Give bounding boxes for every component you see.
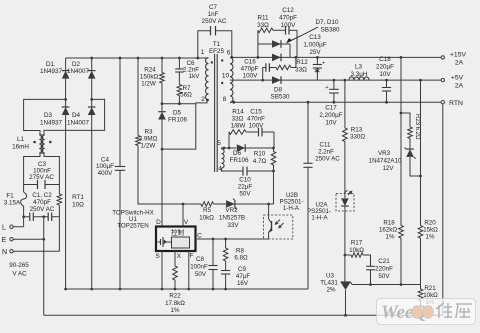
svg-text:EF25: EF25 (209, 48, 225, 55)
svg-text:90-265: 90-265 (9, 262, 29, 269)
svg-text:470pF: 470pF (241, 66, 259, 73)
svg-text:470pF: 470pF (279, 15, 297, 22)
wire V-pin row (183, 203, 201, 205)
svg-text:C17: C17 (325, 105, 337, 112)
wire pin10 / +5V rail (230, 79, 441, 81)
resistor R22 on X pin (174, 251, 176, 266)
snubber capacitor C12 (273, 29, 286, 31)
IC U1 TOP257EN box (156, 227, 196, 252)
resistor R24 (161, 58, 163, 73)
resistor R5 (201, 202, 214, 207)
svg-text:1N5257B: 1N5257B (219, 215, 245, 222)
svg-text:1/8W: 1/8W (231, 123, 246, 130)
svg-text:D6: D6 (233, 150, 242, 157)
svg-text:2,200µF: 2,200µF (319, 112, 342, 119)
resistor R18 column (400, 57, 402, 225)
svg-text:∗: ∗ (313, 66, 321, 76)
diode D8 (272, 76, 281, 84)
svg-text:U3: U3 (326, 273, 334, 280)
svg-text:F: F (190, 253, 194, 260)
wire S pin (161, 251, 163, 289)
svg-text:D5: D5 (173, 110, 182, 117)
svg-text:C16: C16 (244, 59, 256, 66)
svg-text:1kV: 1kV (189, 73, 201, 80)
svg-text:470pF: 470pF (33, 199, 51, 206)
svg-text:1N4742A10: 1N4742A10 (369, 158, 402, 165)
svg-text:C10: C10 (239, 177, 251, 184)
svg-text:S: S (155, 253, 160, 260)
terminal RTN (441, 101, 444, 104)
svg-text:F1: F1 (6, 193, 14, 200)
svg-text:C13: C13 (309, 34, 321, 41)
svg-text:10V: 10V (325, 120, 337, 127)
svg-text:4.7Ω: 4.7Ω (253, 158, 267, 165)
svg-text:220nF: 220nF (375, 266, 393, 273)
U1 MOSFET symbol (160, 239, 162, 245)
svg-text:VR3: VR3 (378, 150, 391, 157)
svg-text:RT1: RT1 (72, 194, 84, 201)
svg-text:250V AC: 250V AC (202, 18, 227, 25)
svg-text:R18: R18 (383, 220, 395, 227)
resistor R20 column (420, 80, 422, 225)
wire choke bottom-right to C3 row (44, 153, 59, 194)
svg-text:C11: C11 (320, 142, 331, 149)
capacitor C3 (24, 184, 38, 186)
terminal +15V (441, 56, 444, 59)
svg-text:C21: C21 (378, 258, 390, 265)
svg-text:SB530: SB530 (271, 94, 290, 101)
svg-text:R13: R13 (351, 127, 363, 134)
zener VR3 (409, 139, 411, 150)
capacitor C17 (333, 80, 335, 89)
svg-text:50V: 50V (378, 273, 390, 280)
svg-text:1N4937: 1N4937 (40, 68, 63, 75)
svg-text:C9: C9 (238, 266, 246, 273)
wire V pin (182, 204, 184, 227)
svg-text:L3: L3 (355, 64, 363, 71)
svg-text:220µF: 220µF (376, 64, 394, 71)
svg-text:22µF: 22µF (238, 184, 253, 191)
diode D3 (65, 99, 67, 107)
snubber capacitor C15 (246, 131, 259, 133)
capacitor C4 (119, 58, 121, 167)
terminal N (10, 250, 13, 253)
shunt regulator U3 TL431 (341, 281, 351, 283)
svg-text:D4: D4 (72, 112, 81, 119)
capacitor C9 (221, 270, 230, 272)
svg-text:2.2nF: 2.2nF (318, 149, 334, 156)
svg-text:+15V: +15V (450, 52, 467, 59)
capacitor C8 (212, 239, 214, 266)
wire choke bottom-left to C3 row (24, 153, 40, 192)
svg-text:100V: 100V (249, 123, 265, 130)
transformer T1 core (214, 54, 216, 172)
wire RTN rail pin8 (230, 101, 441, 103)
svg-text:C15: C15 (250, 109, 262, 116)
svg-text:C1, C2: C1, C2 (32, 192, 52, 199)
snubber resistor R12 (276, 65, 291, 70)
zener VR2 (226, 200, 235, 208)
wire T1 pin2 to drain column (162, 100, 207, 149)
svg-text:3.9MΩ: 3.9MΩ (139, 136, 158, 143)
optocoupler U2A LED (336, 194, 354, 212)
wire F pin (188, 251, 190, 289)
svg-text:15kΩ: 15kΩ (423, 227, 438, 234)
svg-text:R14: R14 (232, 109, 244, 116)
capacitor C1 (24, 216, 30, 218)
svg-text:10kΩ: 10kΩ (423, 292, 438, 299)
svg-text:25V: 25V (309, 49, 321, 56)
svg-text:470nF: 470nF (247, 116, 265, 123)
svg-text:1%: 1% (171, 307, 180, 314)
svg-text:L: L (2, 225, 6, 232)
svg-text:SB380: SB380 (321, 27, 340, 34)
capacitor C18 (386, 80, 388, 87)
svg-text:R11: R11 (257, 15, 269, 22)
svg-text:8: 8 (223, 96, 227, 103)
svg-text:1-H-A: 1-H-A (283, 205, 300, 212)
optocoupler U2B transistor (268, 204, 270, 215)
svg-text:R8: R8 (236, 248, 244, 255)
watermark box (377, 299, 476, 325)
svg-text:1-H-A: 1-H-A (311, 215, 328, 222)
svg-text:1N4007: 1N4007 (67, 120, 90, 127)
terminal E (10, 238, 13, 241)
inductor L3 (349, 77, 369, 80)
wire primary source rail (66, 288, 308, 290)
svg-text:D3: D3 (44, 112, 53, 119)
svg-text:1,000µF: 1,000µF (303, 42, 326, 49)
svg-text:R22: R22 (169, 293, 181, 300)
svg-text:V AC: V AC (12, 271, 27, 278)
svg-text:C: C (197, 233, 202, 240)
svg-text:250V AC: 250V AC (30, 206, 55, 213)
resistor R3 (137, 58, 139, 136)
svg-text:R10: R10 (254, 151, 266, 158)
wire clamp node row (162, 103, 196, 105)
diode D7 parallel branch (257, 44, 259, 57)
snubber R11 (257, 30, 259, 44)
svg-text:47µF: 47µF (236, 273, 250, 280)
inductor L1 common-mode choke (39, 135, 42, 153)
wire F1 to L (23, 206, 25, 227)
svg-text:33Ω: 33Ω (257, 22, 269, 29)
wire bias VB to zener row (273, 171, 275, 204)
svg-text:275V AC: 275V AC (29, 174, 54, 181)
svg-text:10kΩ: 10kΩ (199, 215, 214, 222)
resistor R21 (420, 285, 422, 290)
svg-text:16mH: 16mH (12, 144, 29, 151)
svg-text:R12: R12 (296, 59, 308, 66)
terminal +5V (441, 78, 444, 81)
svg-text:100V: 100V (281, 22, 297, 29)
svg-text:2A: 2A (455, 83, 464, 90)
diode D6 (222, 148, 225, 149)
wire secondary return bottom rail (44, 314, 443, 316)
svg-text:X: X (177, 253, 182, 260)
svg-text:R21: R21 (424, 285, 436, 292)
svg-text:R5: R5 (203, 207, 212, 214)
svg-text:D2: D2 (72, 61, 81, 68)
resistor R17 (345, 254, 351, 256)
resistor R13 (344, 80, 346, 128)
svg-text:TOP257EN: TOP257EN (117, 223, 149, 230)
svg-text:+: + (322, 61, 325, 67)
svg-text:100nF: 100nF (190, 264, 208, 271)
diode D2 (91, 58, 93, 71)
svg-text:D8: D8 (274, 87, 283, 94)
capacitor C11 Y-cap (307, 167, 309, 289)
wire C pin row (196, 238, 269, 240)
svg-text:10kΩ: 10kΩ (349, 247, 364, 254)
svg-text:330Ω: 330Ω (350, 134, 366, 141)
svg-text:33V: 33V (227, 222, 239, 229)
svg-text:1: 1 (201, 49, 205, 56)
svg-text:1/2W: 1/2W (141, 143, 156, 150)
svg-text:50V: 50V (195, 271, 207, 278)
svg-text:33Ω: 33Ω (232, 116, 244, 123)
wire pin6 / +15V rail (230, 56, 441, 58)
diode D4 (91, 99, 93, 107)
transformer T1 secondary winding (230, 57, 233, 102)
svg-text:FR106: FR106 (168, 117, 187, 124)
svg-text:1%: 1% (386, 234, 395, 241)
svg-text:56Ω: 56Ω (180, 92, 192, 99)
svg-text:R24: R24 (144, 67, 156, 74)
svg-text:C12: C12 (282, 7, 294, 14)
svg-text:162kΩ: 162kΩ (379, 227, 397, 234)
transformer T1 bias winding (222, 149, 225, 168)
svg-text:C8: C8 (196, 256, 204, 263)
svg-text:1/2W: 1/2W (141, 81, 156, 88)
resistor R8 (225, 239, 227, 248)
svg-text:100µF: 100µF (96, 163, 114, 170)
svg-text:D7, D10: D7, D10 (315, 19, 339, 26)
svg-text:+: + (325, 85, 328, 91)
svg-text:R3: R3 (144, 129, 153, 136)
capacitor C13 (316, 57, 318, 64)
resistor R10 (271, 152, 276, 166)
svg-text:3.15A: 3.15A (4, 200, 21, 207)
svg-text:5: 5 (217, 140, 221, 147)
snubber R14 (228, 132, 230, 148)
fuse F1 (21, 192, 27, 206)
wire primary HV+ top rail (66, 57, 209, 59)
resistor R23 (401, 113, 410, 127)
svg-text:10Ω: 10Ω (72, 202, 84, 209)
svg-text:RTN: RTN (449, 100, 463, 107)
resistor R7 (177, 85, 182, 96)
svg-text:2%: 2% (327, 287, 336, 294)
svg-text:250V AC: 250V AC (315, 156, 340, 163)
wire LED to TL431 (344, 207, 346, 283)
svg-text:R20: R20 (424, 220, 436, 227)
svg-text:16V: 16V (237, 280, 249, 287)
svg-text:FR106: FR106 (230, 157, 249, 164)
capacitor C7 Y-cap (198, 31, 211, 57)
svg-text:+5V: +5V (451, 75, 464, 82)
capacitor C10 (222, 168, 244, 171)
svg-text:R23 6.2Ω: R23 6.2Ω (414, 114, 420, 140)
svg-text:400V: 400V (98, 170, 114, 177)
diode D1 (65, 58, 67, 71)
snubber capacitor C16 (263, 68, 266, 81)
capacitor C21 (366, 265, 375, 267)
svg-text:C18: C18 (379, 56, 391, 63)
wire AC1 to choke top-left (24, 99, 66, 135)
svg-text:12V: 12V (382, 165, 394, 172)
svg-text:6: 6 (227, 50, 231, 57)
svg-text:2: 2 (201, 96, 205, 103)
node AC2 junction (90, 98, 93, 101)
svg-text:TL431: TL431 (320, 280, 338, 287)
svg-text:N: N (2, 249, 7, 256)
wire TL431 ref row (352, 284, 421, 286)
svg-text:17.8kΩ: 17.8kΩ (165, 300, 185, 307)
svg-text:1N4937: 1N4937 (40, 120, 63, 127)
svg-text:VR2: VR2 (225, 207, 238, 214)
diode D10 (272, 54, 281, 62)
svg-text:T1: T1 (213, 41, 221, 48)
svg-text:R17: R17 (351, 240, 363, 247)
svg-text:6.8Ω: 6.8Ω (234, 255, 248, 262)
node AC1 junction (64, 98, 67, 101)
capacitor C2 (52, 216, 60, 218)
svg-text:D1: D1 (46, 61, 55, 68)
wire earth line to bottom rail (43, 217, 45, 316)
wire AC2 to choke top-right (44, 99, 105, 135)
svg-text:1N4007: 1N4007 (67, 68, 90, 75)
svg-text:100V: 100V (243, 73, 259, 80)
diode D5 (161, 104, 163, 112)
svg-text:10V: 10V (379, 71, 391, 78)
svg-text:1nF: 1nF (208, 11, 219, 18)
svg-text:50V: 50V (239, 191, 251, 198)
svg-text:E: E (2, 237, 7, 244)
svg-text:控制: 控制 (171, 228, 185, 237)
svg-text:C7: C7 (209, 4, 218, 11)
svg-text:3.3µH: 3.3µH (351, 71, 368, 78)
thermistor RT1 (57, 194, 62, 205)
svg-text:150kΩ: 150kΩ (140, 74, 159, 81)
svg-text:2A: 2A (455, 60, 464, 67)
svg-text:V: V (184, 219, 189, 226)
terminal L (10, 225, 13, 228)
svg-text:33Ω: 33Ω (295, 67, 307, 74)
wire RTN right column to bottom rail (442, 104, 444, 315)
svg-text:10: 10 (222, 73, 230, 80)
svg-text:1%: 1% (426, 234, 435, 241)
capacitor C6 (178, 58, 180, 69)
svg-text:D: D (156, 219, 161, 226)
svg-text:L1: L1 (17, 136, 25, 143)
